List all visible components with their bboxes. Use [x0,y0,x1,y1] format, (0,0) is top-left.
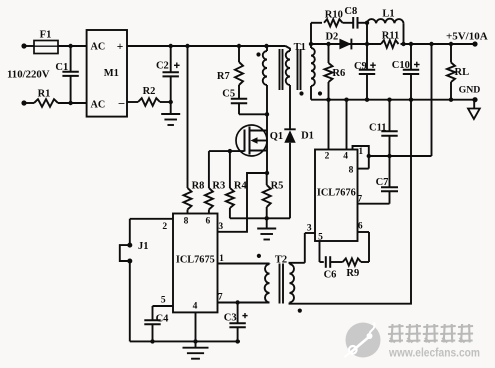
svg-text:1: 1 [358,147,363,157]
capacitor C1 [55,46,78,105]
wire drain node to source node [265,114,269,175]
capacitor C10 [392,44,420,100]
snubber riser right [366,23,368,44]
svg-text:7: 7 [218,293,223,303]
svg-text:ICL7676: ICL7676 [317,188,356,199]
label 110/220V [7,69,50,81]
label +5V/10A [446,31,488,47]
wire F1 to M1 [58,44,87,48]
resistor R11 [381,31,399,48]
pin 3 label U1 [218,222,223,232]
capacitor C8 [343,6,368,29]
transformer T2 primary winding [265,264,270,303]
wire R4/R5/D1 ground bus [230,216,290,220]
pin 7 label [357,195,362,205]
pin 7 label U1 [218,293,223,303]
svg-text:3: 3 [218,222,223,232]
phase dot T1 reset [299,91,303,95]
svg-text:C7: C7 [376,177,389,188]
snubber riser left [311,23,322,44]
bridge rectifier M1 [87,30,127,117]
svg-text:R3: R3 [212,180,225,191]
svg-text:R4: R4 [234,180,248,191]
pin 3 label [307,224,312,234]
capacitor C9 [354,44,376,100]
transformer T2 secondary winding [290,263,305,303]
capacitor C7 [376,156,398,204]
diode D2 [325,32,351,50]
pin 1 label U1 [219,254,224,264]
resistor R9 [343,258,369,278]
phase dot T2 secondary [298,309,302,313]
svg-text:R9: R9 [346,268,359,279]
wire source to pin3 ICL7675 [218,173,267,232]
svg-text:6: 6 [206,216,211,226]
svg-text:M1: M1 [104,68,119,79]
wire +rail from M1 to T1 [127,44,286,48]
label T1 [294,42,306,53]
svg-text:R6: R6 [332,68,345,79]
svg-text:6: 6 [358,222,363,232]
wire R2 to C2 node [160,100,173,104]
pin 8 label U1 [184,216,189,226]
ground (source bus) [257,218,276,239]
svg-text:C5: C5 [222,89,235,100]
pin 6 label [358,222,363,232]
svg-text:4: 4 [343,151,348,161]
capacitor C6 [320,256,343,280]
transformer T1 secondary winding [311,44,315,100]
wire pin1/pin8 tie [353,146,371,169]
svg-text:C9: C9 [354,61,367,72]
connector J1 [120,241,149,264]
svg-text:1: 1 [219,254,224,264]
svg-text:C3: C3 [224,312,237,323]
svg-text:+: + [117,41,124,53]
ground (C2/R2 node) [161,102,180,125]
input terminal N (line) [21,100,34,105]
capacitor C5 [222,85,247,114]
resistor RL [447,44,469,100]
watermark logo [345,323,481,360]
wire C5 to drain node [239,112,269,116]
resistor R3 [205,151,225,213]
pin 4 label U1 [193,302,198,312]
wire pin1 ICL7675 to T2 [218,263,270,265]
svg-text:C6: C6 [324,270,337,281]
resistor R10 [324,9,343,26]
svg-text:AC: AC [91,99,106,110]
diode D1 [284,129,314,218]
ground terminal (open triangle) [468,100,480,119]
svg-text:R11: R11 [382,31,400,42]
wire gate line [209,149,245,153]
svg-text:R7: R7 [217,71,230,82]
svg-text:D2: D2 [325,32,338,43]
wire R1 to M1 [58,102,87,104]
svg-text:T2: T2 [275,255,287,266]
svg-text:2: 2 [325,151,330,161]
wire pin1 node to +5V [369,44,432,158]
wire primary ground rail [130,339,240,343]
label GND [459,84,481,95]
svg-text:C11: C11 [369,122,387,133]
resistor R4 [226,151,248,218]
svg-text:R5: R5 [271,180,284,191]
resistor R1 [34,88,58,106]
resistor R2 [138,86,160,106]
resistor R7 [217,62,243,85]
svg-text:C4: C4 [156,313,170,324]
T1 core right [298,49,301,90]
svg-text:2: 2 [162,222,167,232]
svg-text:www.elecfans.com: www.elecfans.com [388,346,480,360]
svg-text:RL: RL [455,67,470,78]
svg-text:J1: J1 [138,241,149,252]
capacitor C11 [369,100,398,156]
wire secondary ground rail [311,97,478,102]
svg-text:–: – [118,98,125,110]
svg-text:GND: GND [459,84,481,95]
svg-text:R1: R1 [38,88,51,99]
pin 2 label [325,151,330,161]
svg-text:C1: C1 [55,62,68,73]
capacitor C2 [156,46,180,102]
pin 8 label [349,165,354,175]
transformer T1 primary winding [263,44,269,115]
svg-text:8: 8 [184,216,189,226]
wire pin5 ICL7676 [319,241,321,262]
fuse F1 [34,30,58,54]
wire rail to pin2 ICL7676 [328,100,330,150]
wire pin4 ICL7675 [195,312,197,341]
wire T2 primary bottom to pin7 [218,300,270,304]
label T2 [275,255,287,266]
phase dot T1 secondary [318,91,322,95]
pin 1 label [358,147,363,157]
T1 core left [280,49,283,90]
capacitor C4 [144,306,169,341]
svg-text:ICL7675: ICL7675 [176,255,215,266]
pin 5 label U1 [161,295,166,305]
svg-text:AC: AC [91,42,106,53]
svg-text:C8: C8 [344,6,357,17]
wire secondary top line [309,42,475,46]
T2 core [280,264,284,304]
capacitor C3 [224,303,248,342]
transistor Q1 [236,125,283,156]
resistor R8 [184,180,205,213]
pin 5 label [318,233,323,243]
svg-text:4: 4 [193,302,198,312]
svg-text:8: 8 [349,165,354,175]
inductor L1 [365,8,406,46]
phase dot T2 primary [257,254,261,258]
wire pin5 ICL7675 [153,305,174,307]
wire J1 to ground rail [129,261,131,341]
pin 4 label [343,151,348,161]
svg-text:C2: C2 [156,60,169,71]
wire +rail to R7 [238,46,240,62]
wire M1- to R2 [127,101,138,103]
pin 2 label U1 [162,222,167,232]
op-amp U2 ICL7676 [315,150,358,242]
op-amp U1 ICL7675 [173,214,218,313]
wire T2 secondary return [290,100,412,304]
svg-text:R8: R8 [192,180,205,191]
transformer T1 reset winding [286,46,291,129]
svg-text:F1: F1 [40,30,52,41]
svg-text:Q1: Q1 [270,131,283,142]
wire pin3 ICL7676 [305,233,315,263]
svg-text:R10: R10 [325,9,343,20]
pin 6 label U1 [206,216,211,226]
phase dot T1 primary [256,52,260,56]
svg-text:C10: C10 [392,60,410,71]
svg-text:L1: L1 [382,8,394,19]
wire pin2 to J1 [130,219,173,245]
wire +rail to R8 [187,46,189,188]
svg-text:+5V/10A: +5V/10A [446,31,488,43]
wire rail to pin4 ICL7676 [346,100,348,150]
input terminal L (line) [21,43,34,48]
resistor R6 [325,44,346,100]
svg-text:R2: R2 [143,86,156,97]
svg-text:110/220V: 110/220V [7,69,50,81]
svg-text:D1: D1 [301,131,314,142]
svg-text:3: 3 [307,224,312,234]
svg-text:5: 5 [161,295,166,305]
wire C7 to pin7 [358,203,390,205]
ground (pin4) [183,341,209,358]
resistor R5 [263,173,284,218]
wire R9 to pin6 [358,232,370,262]
